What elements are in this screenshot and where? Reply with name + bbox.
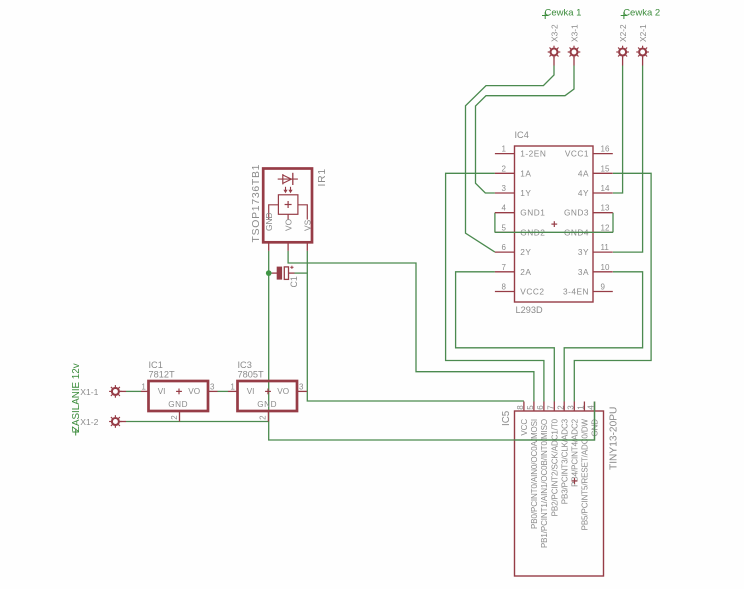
svg-text:3: 3 bbox=[299, 383, 304, 392]
wire X3-1 to IC4 pin 3 (1Y) bbox=[476, 66, 575, 194]
svg-text:PB3/PCINT3/CLK/ADC3: PB3/PCINT3/CLK/ADC3 bbox=[560, 418, 569, 504]
net label Cewka 1 bbox=[542, 8, 581, 20]
svg-text:VCC2: VCC2 bbox=[520, 287, 544, 297]
motor driver IC4 bbox=[495, 146, 613, 302]
svg-text:8: 8 bbox=[516, 405, 525, 410]
svg-text:L293D: L293D bbox=[516, 305, 543, 315]
svg-text:C1: C1 bbox=[289, 276, 299, 287]
svg-text:7: 7 bbox=[546, 405, 555, 410]
wire IC4 pin 10 (3A) to IC5 pin 2 bbox=[564, 272, 642, 402]
pad X1-2 bbox=[109, 415, 126, 428]
svg-text:VI: VI bbox=[158, 387, 166, 396]
svg-text:VCC: VCC bbox=[520, 419, 529, 436]
voltage regulator IC1 bbox=[141, 381, 218, 422]
svg-text:5: 5 bbox=[502, 223, 507, 232]
wire GND through IC4 (overlay) bbox=[495, 231, 613, 233]
wire IC4 GND bracket left bbox=[494, 213, 496, 233]
svg-text:GND1: GND1 bbox=[520, 208, 545, 218]
svg-text:2A: 2A bbox=[520, 267, 531, 277]
svg-text:GND: GND bbox=[257, 400, 277, 409]
pad X3-1 bbox=[568, 46, 581, 66]
svg-text:IC5: IC5 bbox=[501, 410, 512, 426]
wire IC4 pin 2 (1A) to IC5 pin 6 bbox=[446, 173, 544, 401]
wire IC4 pin 15 (4A) to IC5 pin 3 bbox=[574, 173, 651, 401]
svg-text:Cewka 2: Cewka 2 bbox=[623, 8, 660, 19]
svg-text:PB2/PCINT2/SCK/ADC1/T0: PB2/PCINT2/SCK/ADC1/T0 bbox=[551, 418, 560, 516]
svg-text:4A: 4A bbox=[578, 168, 589, 178]
wire X2-1 to IC4 pin 11 (3Y) bbox=[613, 66, 643, 253]
wire IC4 GND through bbox=[495, 231, 613, 233]
svg-text:TSOP1736TB1: TSOP1736TB1 bbox=[251, 164, 262, 243]
svg-text:4: 4 bbox=[502, 204, 507, 213]
svg-text:VS: VS bbox=[303, 219, 313, 231]
svg-text:5: 5 bbox=[526, 405, 535, 410]
svg-text:VO: VO bbox=[283, 218, 293, 231]
svg-text:PB0/PCINT0/AIN0/OC0A/MOSI: PB0/PCINT0/AIN0/OC0A/MOSI bbox=[530, 419, 539, 529]
IC4 pin numbers bbox=[502, 145, 610, 292]
svg-text:X1-1: X1-1 bbox=[80, 387, 98, 397]
svg-text:ZASILANIE 12v: ZASILANIE 12v bbox=[71, 363, 82, 432]
svg-text:X1-2: X1-2 bbox=[80, 417, 98, 427]
IR receiver IR1 bbox=[263, 169, 312, 251]
wire X1-1 to IC1 VI bbox=[126, 390, 141, 392]
svg-text:10: 10 bbox=[601, 263, 610, 272]
svg-text:GND3: GND3 bbox=[564, 208, 589, 218]
svg-text:11: 11 bbox=[601, 243, 610, 252]
IC5 pin numbers bbox=[516, 405, 596, 410]
svg-text:PB4/PCINT4/ADC2: PB4/PCINT4/ADC2 bbox=[571, 418, 580, 487]
svg-text:8: 8 bbox=[502, 283, 507, 292]
svg-text:VO: VO bbox=[277, 387, 289, 396]
svg-text:2: 2 bbox=[502, 164, 507, 173]
svg-text:16: 16 bbox=[601, 145, 610, 154]
wire X3-2 to IC4 pin 6 (2Y) bbox=[466, 66, 555, 253]
svg-text:2: 2 bbox=[259, 415, 268, 420]
wire IC4 pin 7 (2A) to IC5 pin 7 bbox=[456, 272, 555, 402]
svg-text:3Y: 3Y bbox=[578, 247, 589, 257]
svg-text:VI: VI bbox=[247, 387, 255, 396]
svg-text:GND: GND bbox=[168, 400, 188, 409]
svg-text:VCC1: VCC1 bbox=[565, 149, 589, 159]
svg-text:1: 1 bbox=[141, 383, 146, 392]
svg-text:7812T: 7812T bbox=[149, 370, 175, 380]
pad X2-1 bbox=[636, 46, 649, 66]
net label Cewka 2 bbox=[621, 8, 660, 20]
wire GND net IR1/C1/IC3 to IC5 pin 4 bbox=[269, 251, 595, 440]
svg-text:3: 3 bbox=[210, 383, 215, 392]
svg-text:GND: GND bbox=[264, 212, 274, 231]
svg-text:4Y: 4Y bbox=[578, 188, 589, 198]
svg-text:IC1: IC1 bbox=[149, 360, 163, 370]
svg-text:IR1: IR1 bbox=[317, 168, 328, 186]
IC1 pin numbers bbox=[141, 383, 215, 420]
svg-text:1Y: 1Y bbox=[520, 188, 531, 198]
svg-text:13: 13 bbox=[601, 204, 610, 213]
svg-text:IC4: IC4 bbox=[515, 130, 529, 140]
svg-text:PB1/PCINT1/AIN1/OC0B/INT0/MISO: PB1/PCINT1/AIN1/OC0B/INT0/MISO bbox=[540, 419, 549, 548]
svg-text:2Y: 2Y bbox=[520, 247, 531, 257]
svg-text:X3-1: X3-1 bbox=[569, 24, 579, 42]
svg-text:2: 2 bbox=[556, 405, 565, 410]
svg-text:X2-1: X2-1 bbox=[638, 24, 648, 42]
svg-text:15: 15 bbox=[601, 164, 610, 173]
pad X3-2 bbox=[548, 46, 561, 66]
svg-text:IC3: IC3 bbox=[238, 360, 252, 370]
svg-text:6: 6 bbox=[502, 243, 507, 252]
svg-text:X3-2: X3-2 bbox=[549, 24, 559, 42]
pad X2-2 bbox=[616, 46, 629, 66]
svg-text:3-4EN: 3-4EN bbox=[563, 287, 589, 297]
wire IC1 VO to IC3 VI bbox=[218, 390, 229, 392]
svg-text:PB5/PCINT5/RESET/ADC0/DW: PB5/PCINT5/RESET/ADC0/DW bbox=[581, 418, 590, 530]
svg-text:X2-2: X2-2 bbox=[618, 24, 628, 42]
IC3 pin numbers bbox=[230, 383, 304, 420]
svg-text:VO: VO bbox=[188, 387, 200, 396]
voltage regulator IC3 bbox=[228, 381, 307, 422]
svg-text:14: 14 bbox=[601, 184, 610, 193]
pad X1-1 bbox=[109, 385, 126, 398]
svg-text:GND: GND bbox=[591, 419, 600, 437]
svg-text:1A: 1A bbox=[520, 168, 531, 178]
svg-text:9: 9 bbox=[601, 283, 606, 292]
wire X2-2 to IC4 pin 14 (4Y) bbox=[613, 66, 623, 194]
svg-text:7805T: 7805T bbox=[238, 370, 264, 380]
junction GND/C1 bbox=[266, 270, 272, 276]
svg-text:3A: 3A bbox=[578, 267, 589, 277]
wire IR1 VO to IC5 pin 5 bbox=[288, 251, 534, 402]
svg-text:Cewka 1: Cewka 1 bbox=[545, 8, 582, 19]
svg-text:1: 1 bbox=[502, 145, 507, 154]
svg-text:12: 12 bbox=[601, 223, 610, 232]
svg-text:1: 1 bbox=[230, 383, 235, 392]
wire IC4 GND bracket right bbox=[612, 213, 614, 233]
wire X1-2 to GND net bbox=[126, 421, 269, 423]
net label ZASILANIE 12v bbox=[71, 363, 82, 435]
svg-text:1: 1 bbox=[577, 405, 586, 410]
svg-text:3: 3 bbox=[502, 184, 507, 193]
svg-text:1-2EN: 1-2EN bbox=[520, 149, 546, 159]
wire GND through IC5 to pin 4 (overlay) bbox=[514, 402, 595, 441]
svg-text:TINY13-20PU: TINY13-20PU bbox=[609, 407, 620, 470]
svg-text:2: 2 bbox=[170, 415, 179, 420]
microcontroller IC5 bbox=[515, 402, 604, 577]
svg-text:7: 7 bbox=[502, 263, 507, 272]
wire 5V net IR1 VS / IC3 VO to IC5 pin 8 bbox=[307, 251, 524, 401]
capacitor C1 bbox=[269, 266, 308, 280]
svg-text:6: 6 bbox=[536, 405, 545, 410]
svg-text:3: 3 bbox=[566, 405, 575, 410]
